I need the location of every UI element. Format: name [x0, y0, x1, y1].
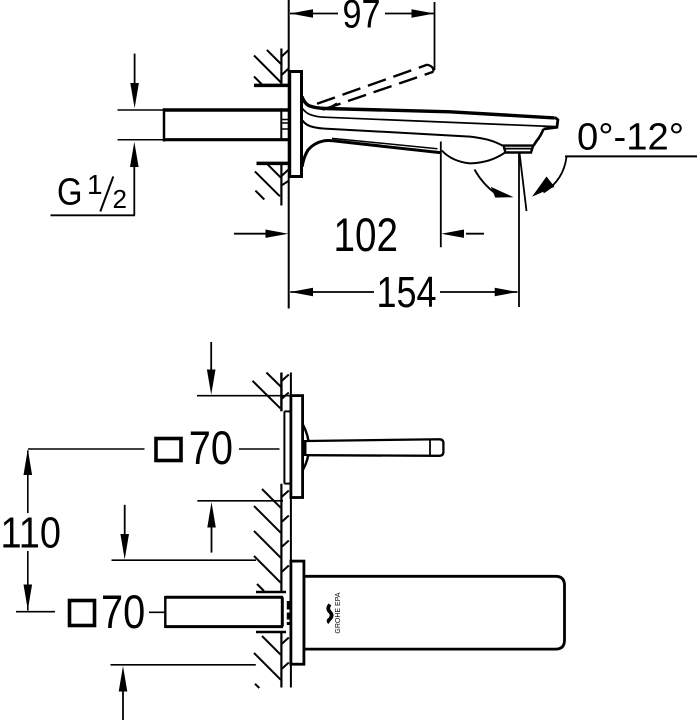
- supply pipe extension lines: [118, 109, 165, 111]
- square symbol top: [156, 439, 181, 461]
- wall line (surface): [288, 0, 290, 309]
- extension line right of 97: [434, 2, 436, 70]
- hatch upper wall: [254, 50, 289, 85]
- GROHE logo mark: [328, 605, 331, 623]
- lever dashed outline upper: [317, 65, 427, 104]
- escutcheon (side view): [290, 72, 302, 177]
- escutcheon top reference line: [197, 395, 291, 397]
- aerator: [504, 146, 534, 153]
- mid up arrow: [211, 527, 213, 553]
- bottom up arrow: [119, 666, 128, 692]
- mid down arrow: [124, 505, 126, 534]
- wall band left line segments: [280, 373, 282, 688]
- svg-text:0°-12°: 0°-12°: [577, 117, 684, 159]
- spout head underside channel: [442, 151, 505, 164]
- water stream vertical line / 154 extension: [518, 153, 520, 308]
- lever boss bulge: [303, 424, 309, 471]
- top arrow down: [210, 342, 212, 370]
- svg-text:G: G: [57, 172, 83, 214]
- hatch bottom drawing: [253, 373, 289, 689]
- wall band inner line lower section: [280, 163, 282, 205]
- spout escutcheon bottom ref line: [111, 664, 256, 666]
- lever hole edges: [284, 410, 291, 412]
- lever bar: [307, 439, 444, 456]
- 110 bottom reference tick: [16, 611, 55, 613]
- dimension 97 arrowheads: [290, 9, 313, 17]
- pipe thread detail at wall: [282, 120, 289, 130]
- spout box (plan): [304, 576, 565, 649]
- wall hole bottom edge: [257, 162, 289, 166]
- label line right: [239, 448, 280, 450]
- spout head under-tip curve: [534, 129, 544, 146]
- pipe diameter arrow top: [134, 54, 136, 83]
- supply pipe body: [164, 108, 289, 141]
- hatch lower wall: [255, 164, 289, 200]
- lever tip corner: [427, 65, 434, 72]
- svg-text:GROHE EPA: GROHE EPA: [335, 592, 342, 633]
- escutcheon bottom ref line: [197, 500, 283, 502]
- svg-text:1: 1: [87, 169, 103, 200]
- svg-text:70: 70: [189, 421, 233, 474]
- water stream tilted line: [520, 153, 527, 211]
- angle arc right: [544, 157, 567, 193]
- spout escutcheon top ref line: [112, 559, 257, 561]
- spout middle silhouette line: [303, 121, 503, 146]
- square-70 top label line left: [28, 448, 145, 450]
- svg-text:70: 70: [101, 585, 145, 638]
- svg-text:154: 154: [377, 268, 437, 317]
- svg-text:97: 97: [343, 0, 381, 37]
- svg-text:102: 102: [334, 208, 399, 261]
- valve connection in band: [287, 601, 290, 625]
- bottom escutcheon rect (plan): [291, 561, 304, 664]
- angle arc left: [475, 170, 497, 194]
- lever dashed outline lower: [323, 72, 434, 110]
- wall band right line segments: [290, 373, 292, 688]
- square-70 bottom label: [70, 601, 95, 626]
- 0-12 leader underline: [565, 155, 697, 157]
- spout tip face: [544, 117, 558, 129]
- dimension 154: [290, 291, 374, 293]
- lever base tick: [328, 104, 337, 110]
- spout bottom flare thick: [302, 141, 440, 167]
- svg-text:110: 110: [1, 508, 62, 557]
- G 1/2 leader line: [51, 214, 136, 216]
- wall band inner line top section: [280, 49, 282, 86]
- wall hole top edge: [254, 84, 289, 88]
- pipe diameter arrow bottom (from G1/2): [133, 167, 135, 215]
- dimension 102: [234, 233, 266, 235]
- lever shank in wall: [283, 411, 285, 483]
- valve body (in-wall): [165, 596, 283, 628]
- spout top edge: [302, 97, 555, 118]
- dimension 97 line: [290, 13, 434, 15]
- spout underside thin companion: [332, 138, 438, 148]
- top escutcheon rect (plan): [291, 396, 303, 498]
- svg-text:2: 2: [113, 184, 127, 214]
- spout top inner line: [303, 109, 556, 127]
- valve hole edges: [256, 591, 286, 594]
- 102 extension line: [440, 142, 442, 248]
- 110 dimension: [27, 451, 29, 514]
